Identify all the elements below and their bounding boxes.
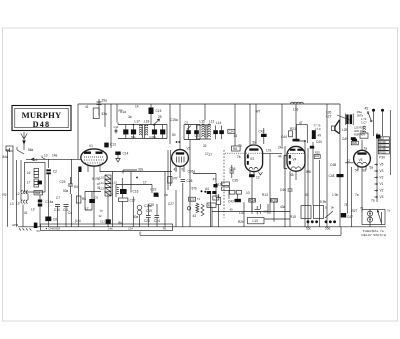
svg-text:R8: R8 bbox=[233, 147, 237, 151]
svg-text:4a: 4a bbox=[164, 193, 168, 197]
svg-text:1a: 1a bbox=[100, 209, 103, 213]
svg-text:L3: L3 bbox=[10, 202, 14, 206]
svg-text:14: 14 bbox=[135, 105, 139, 109]
svg-text:▼ CHASSIS: ▼ CHASSIS bbox=[45, 226, 60, 230]
svg-text:53a: 53a bbox=[102, 112, 108, 116]
svg-text:14a: 14a bbox=[52, 154, 58, 158]
svg-text:P4a: P4a bbox=[357, 110, 362, 114]
svg-text:C30: C30 bbox=[107, 193, 113, 197]
svg-text:78: 78 bbox=[360, 206, 363, 210]
svg-text:5 9b: 5 9b bbox=[320, 200, 326, 204]
svg-text:C5: C5 bbox=[185, 121, 189, 125]
svg-text:C42: C42 bbox=[228, 200, 234, 204]
svg-text:R29: R29 bbox=[352, 141, 357, 145]
svg-text:50Ta: 50Ta bbox=[357, 114, 363, 118]
svg-text:C15a: C15a bbox=[170, 118, 178, 122]
svg-text:L13: L13 bbox=[209, 120, 215, 124]
svg-text:43: 43 bbox=[234, 134, 238, 138]
svg-text:P30: P30 bbox=[379, 156, 385, 160]
svg-text:9: 9 bbox=[92, 177, 94, 181]
svg-text:3a: 3a bbox=[128, 115, 132, 119]
svg-text:10: 10 bbox=[246, 191, 250, 195]
svg-text:2.C7: 2.C7 bbox=[361, 121, 367, 125]
svg-text:C47: C47 bbox=[347, 215, 353, 219]
svg-text:R14: R14 bbox=[249, 199, 255, 203]
svg-text:(24): (24) bbox=[264, 210, 269, 214]
svg-text:L17: L17 bbox=[135, 120, 141, 124]
svg-text:7a: 7a bbox=[355, 193, 359, 197]
svg-text:27: 27 bbox=[209, 153, 213, 157]
svg-text:24a: 24a bbox=[278, 146, 284, 150]
svg-text:V3: V3 bbox=[380, 195, 384, 199]
svg-text:C19: C19 bbox=[146, 209, 152, 213]
svg-text:T1: T1 bbox=[197, 197, 201, 201]
svg-text:R5: R5 bbox=[155, 194, 159, 198]
svg-text:C17: C17 bbox=[130, 199, 136, 203]
svg-text:P(32): P(32) bbox=[379, 151, 386, 155]
svg-text:44: 44 bbox=[278, 155, 282, 159]
svg-text:V2: V2 bbox=[380, 176, 384, 180]
svg-text:41: 41 bbox=[174, 168, 178, 172]
svg-text:DELAY SWITCH: DELAY SWITCH bbox=[362, 233, 387, 237]
svg-text:7b: 7b bbox=[237, 155, 241, 159]
svg-text:V1: V1 bbox=[380, 182, 384, 186]
svg-text:L4a: L4a bbox=[108, 226, 113, 230]
svg-text:R25: R25 bbox=[315, 151, 320, 155]
svg-text:25a: 25a bbox=[102, 99, 108, 103]
svg-text:49: 49 bbox=[318, 134, 322, 138]
svg-text:7a: 7a bbox=[364, 147, 368, 151]
svg-text:47: 47 bbox=[213, 178, 217, 182]
svg-text:C4B: C4B bbox=[330, 163, 336, 167]
svg-text:C25: C25 bbox=[148, 203, 154, 207]
svg-text:R27: R27 bbox=[352, 209, 358, 213]
svg-text:7a: 7a bbox=[371, 199, 375, 203]
svg-text:C14: C14 bbox=[128, 226, 133, 230]
svg-text:13: 13 bbox=[44, 154, 48, 158]
svg-text:50a: 50a bbox=[133, 215, 139, 219]
svg-text:45: 45 bbox=[290, 173, 294, 177]
svg-text:C40: C40 bbox=[316, 140, 322, 144]
svg-text:C48: C48 bbox=[329, 174, 335, 178]
svg-text:V5: V5 bbox=[380, 163, 384, 167]
svg-text:W7: W7 bbox=[256, 110, 261, 114]
svg-text:L15: L15 bbox=[113, 181, 118, 185]
svg-text:5L10: 5L10 bbox=[216, 183, 223, 187]
svg-text:50: 50 bbox=[172, 133, 176, 137]
svg-text:R2b: R2b bbox=[238, 220, 244, 224]
svg-text:R1: R1 bbox=[163, 226, 167, 230]
svg-text:5a: 5a bbox=[253, 141, 257, 145]
svg-text:17a: 17a bbox=[266, 149, 272, 153]
svg-text:C14: C14 bbox=[123, 152, 129, 156]
svg-text:56a: 56a bbox=[28, 148, 34, 152]
svg-text:50a: 50a bbox=[63, 189, 69, 193]
svg-text:R(36): R(36) bbox=[379, 140, 386, 144]
svg-text:L4: L4 bbox=[34, 158, 38, 162]
svg-text:C14a: C14a bbox=[46, 200, 54, 204]
svg-text:C16: C16 bbox=[133, 190, 139, 194]
svg-text:53: 53 bbox=[305, 193, 309, 197]
svg-text:C34: C34 bbox=[229, 130, 234, 134]
svg-text:C8: C8 bbox=[53, 218, 57, 222]
svg-text:C15: C15 bbox=[156, 109, 162, 113]
svg-text:C13: C13 bbox=[110, 143, 116, 147]
svg-text:C7: C7 bbox=[56, 196, 60, 200]
svg-text:L10: L10 bbox=[100, 176, 105, 180]
svg-text:32a: 32a bbox=[138, 168, 144, 172]
svg-text:R6: R6 bbox=[96, 177, 100, 181]
svg-text:32: 32 bbox=[203, 144, 207, 148]
svg-text:L3: L3 bbox=[16, 202, 20, 206]
svg-text:V1: V1 bbox=[89, 144, 93, 148]
svg-text:31: 31 bbox=[97, 186, 101, 190]
svg-text:C36: C36 bbox=[230, 167, 236, 171]
svg-text:78: 78 bbox=[344, 203, 348, 207]
svg-text:45: 45 bbox=[365, 107, 369, 111]
svg-text:V3: V3 bbox=[250, 157, 254, 161]
svg-text:C27: C27 bbox=[168, 202, 174, 206]
svg-text:C2: C2 bbox=[53, 170, 57, 174]
svg-text:C22: C22 bbox=[151, 188, 157, 192]
svg-text:R(35): R(35) bbox=[379, 147, 386, 151]
svg-text:17: 17 bbox=[143, 181, 147, 185]
svg-text:V5: V5 bbox=[359, 158, 363, 162]
svg-text:R21: R21 bbox=[290, 127, 296, 131]
svg-text:L9: L9 bbox=[31, 208, 35, 212]
svg-text:R13: R13 bbox=[262, 193, 268, 197]
svg-text:5a: 5a bbox=[370, 166, 374, 170]
svg-text:D48: D48 bbox=[33, 120, 51, 129]
svg-text:(1)4: (1)4 bbox=[75, 219, 81, 223]
svg-text:84a: 84a bbox=[3, 155, 9, 159]
svg-text:57b: 57b bbox=[192, 187, 198, 191]
svg-text:17: 17 bbox=[85, 207, 89, 211]
svg-text:41: 41 bbox=[85, 105, 89, 109]
svg-text:C16a: C16a bbox=[150, 135, 157, 139]
svg-text:C4: C4 bbox=[68, 211, 72, 215]
svg-text:12: 12 bbox=[256, 176, 260, 180]
svg-text:C26: C26 bbox=[187, 179, 193, 183]
svg-text:43a: 43a bbox=[280, 205, 286, 209]
svg-text:12: 12 bbox=[347, 159, 351, 163]
svg-text:L14: L14 bbox=[216, 121, 222, 125]
svg-text:W8: W8 bbox=[306, 170, 311, 174]
svg-text:C20: C20 bbox=[144, 219, 150, 223]
svg-text:7a: 7a bbox=[387, 209, 390, 213]
svg-text:L7-0: L7-0 bbox=[315, 127, 321, 131]
svg-text:R26: R26 bbox=[271, 199, 277, 203]
svg-text:V2: V2 bbox=[380, 189, 384, 193]
svg-text:L15: L15 bbox=[200, 120, 206, 124]
svg-text:MURPHY: MURPHY bbox=[22, 110, 62, 120]
svg-text:C44: C44 bbox=[281, 135, 287, 139]
svg-text:C35: C35 bbox=[232, 179, 238, 183]
svg-text:43: 43 bbox=[193, 214, 197, 218]
svg-text:W4: W4 bbox=[118, 221, 123, 225]
svg-text:5L8: 5L8 bbox=[35, 191, 41, 195]
svg-text:L13: L13 bbox=[253, 219, 259, 223]
svg-text:1 9b: 1 9b bbox=[332, 193, 338, 197]
svg-text:C26a: C26a bbox=[188, 170, 196, 174]
svg-text:A4: A4 bbox=[205, 187, 209, 191]
svg-text:C1a: C1a bbox=[120, 110, 126, 114]
svg-text:L11: L11 bbox=[100, 181, 105, 185]
svg-text:R4: R4 bbox=[82, 197, 86, 201]
svg-text:V3: V3 bbox=[380, 169, 384, 173]
svg-text:40: 40 bbox=[230, 208, 233, 212]
svg-text:L6: L6 bbox=[27, 171, 31, 175]
svg-text:R15: R15 bbox=[290, 215, 296, 219]
svg-text:C29: C29 bbox=[60, 180, 66, 184]
svg-text:32: 32 bbox=[99, 214, 102, 218]
svg-text:9: 9 bbox=[182, 168, 184, 172]
svg-text:47: 47 bbox=[299, 121, 303, 125]
svg-text:R4: R4 bbox=[74, 185, 78, 189]
svg-text:L7: L7 bbox=[27, 181, 31, 185]
svg-text:L18: L18 bbox=[144, 120, 150, 124]
svg-text:C14: C14 bbox=[114, 125, 119, 129]
svg-text:25: 25 bbox=[158, 115, 162, 119]
svg-text:C13: C13 bbox=[100, 220, 105, 224]
svg-text:1.7a: 1.7a bbox=[361, 117, 367, 121]
svg-text:R2: R2 bbox=[3, 193, 7, 197]
svg-text:C10: C10 bbox=[54, 208, 60, 212]
svg-text:V4: V4 bbox=[293, 158, 297, 162]
svg-text:41: 41 bbox=[24, 211, 28, 215]
svg-text:50b: 50b bbox=[131, 135, 136, 139]
svg-text:R7: R7 bbox=[174, 177, 178, 181]
svg-text:C46: C46 bbox=[280, 188, 286, 192]
svg-text:L2B: L2B bbox=[342, 128, 348, 132]
svg-text:LW15: LW15 bbox=[12, 224, 19, 227]
svg-text:R(31): R(31) bbox=[379, 144, 386, 148]
svg-text:L2: L2 bbox=[16, 192, 20, 196]
svg-text:9b: 9b bbox=[331, 206, 334, 210]
svg-text:C9: C9 bbox=[95, 196, 99, 200]
